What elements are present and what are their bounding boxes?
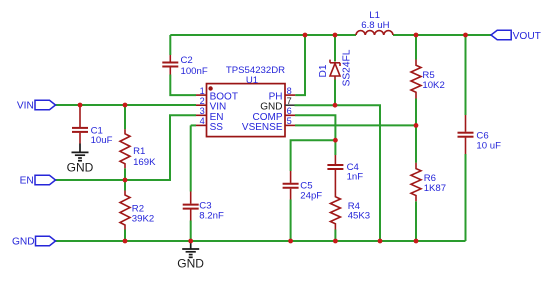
- junction node R5 top: [414, 33, 419, 38]
- svg-text:GND: GND: [12, 237, 35, 248]
- junction node D1 top: [333, 33, 338, 38]
- wire VIN rail: [56, 104, 197, 106]
- svg-text:VIN: VIN: [17, 101, 34, 112]
- svg-text:GND: GND: [177, 257, 204, 271]
- svg-text:SS: SS: [210, 122, 224, 133]
- wire COMP node to C5: [291, 140, 336, 171]
- svg-text:5: 5: [287, 116, 292, 126]
- resistor R5: [411, 60, 421, 99]
- junction node PH rail: [303, 33, 308, 38]
- junction node COMP/C4/C5: [333, 138, 338, 143]
- svg-text:U1: U1: [246, 75, 258, 86]
- svg-text:10K2: 10K2: [422, 80, 444, 91]
- wire C6 bottom: [465, 154, 467, 241]
- svg-text:10 uF: 10 uF: [476, 140, 501, 151]
- capacitor C2: [162, 55, 178, 75]
- wire COMP node to C4: [334, 140, 336, 155]
- wire R5 bottom / R6 top: [415, 99, 417, 163]
- capacitor C4: [327, 155, 343, 191]
- pin 7 GND: [285, 104, 295, 106]
- pin 1 BOOT: [196, 94, 207, 96]
- capacitor C3: [183, 192, 199, 221]
- svg-text:EN: EN: [20, 176, 34, 187]
- wire GND bottom rail: [56, 240, 466, 242]
- resistor R2: [120, 191, 130, 230]
- pin 6 COMP: [285, 114, 295, 116]
- resistor R1: [120, 129, 130, 168]
- capacitor C1: [72, 106, 88, 144]
- wire D1 bottom: [334, 80, 336, 106]
- svg-text:VSENSE: VSENSE: [242, 122, 283, 133]
- wire GND pin7 across and down: [295, 105, 381, 241]
- svg-text:D1: D1: [318, 64, 329, 77]
- inductor L1: [356, 31, 393, 35]
- wire D1 top: [334, 35, 336, 61]
- diode D1 SS24FL: [330, 60, 340, 80]
- wire top rail right (L1 to VOUT): [393, 34, 491, 36]
- svg-text:1nF: 1nF: [347, 172, 364, 183]
- wire top rail left (BOOT to L1): [170, 34, 356, 36]
- svg-text:SS24FL: SS24FL: [341, 49, 352, 86]
- port VIN: [35, 100, 56, 109]
- svg-text:1K87: 1K87: [424, 183, 446, 194]
- wire VSENSE pin5 to divider: [295, 124, 416, 126]
- wire SS down to C3: [190, 125, 192, 191]
- wire C3 bottom: [190, 221, 192, 242]
- wire R2 bottom: [124, 230, 126, 242]
- svg-text:8: 8: [287, 86, 292, 96]
- svg-text:3: 3: [200, 106, 205, 116]
- ground symbol under C3: [182, 241, 199, 257]
- svg-text:VOUT: VOUT: [513, 31, 541, 42]
- junction node EN/R1/R2: [123, 178, 128, 183]
- svg-text:100nF: 100nF: [181, 66, 208, 77]
- svg-text:6.8 uH: 6.8 uH: [361, 20, 389, 31]
- svg-text:2: 2: [200, 96, 205, 106]
- wire R5 top: [415, 35, 417, 60]
- port GND: [36, 236, 56, 245]
- junction node GND/R6: [414, 239, 419, 244]
- svg-text:R1: R1: [133, 146, 145, 157]
- wire C2 top branch: [169, 35, 171, 55]
- svg-text:8.2nF: 8.2nF: [199, 210, 224, 221]
- svg-text:169K: 169K: [133, 157, 156, 168]
- junction node GND/R4: [333, 239, 338, 244]
- wire C6 top: [465, 35, 467, 115]
- svg-text:39K2: 39K2: [132, 213, 154, 224]
- wire R6 bottom: [415, 201, 417, 241]
- junction node GND/C3: [188, 239, 193, 244]
- junction node GND/C5: [288, 239, 293, 244]
- wire C2 bottom to pin1: [170, 75, 196, 96]
- capacitor C5: [283, 171, 299, 200]
- pin 2 VIN: [196, 104, 207, 106]
- junction node D1 bottom: [333, 103, 338, 108]
- svg-text:24pF: 24pF: [300, 190, 322, 201]
- wire R1 top: [124, 105, 126, 129]
- port VOUT: [491, 30, 511, 39]
- svg-text:C2: C2: [181, 55, 193, 66]
- svg-text:10uF: 10uF: [91, 135, 113, 146]
- resistor R6: [411, 163, 421, 202]
- pin 4 SS: [196, 124, 207, 126]
- junction node GND/R2: [123, 239, 128, 244]
- svg-text:45K3: 45K3: [348, 211, 370, 222]
- capacitor C6: [458, 115, 474, 154]
- svg-text:6: 6: [287, 106, 292, 116]
- svg-text:4: 4: [200, 116, 205, 126]
- junction node VIN/C1: [78, 103, 83, 108]
- wire R4 bottom: [334, 230, 336, 242]
- junction node VSENSE/R5/R6: [414, 123, 419, 128]
- IC U1 TPS54232DR body: [207, 84, 286, 137]
- pin 5 VSENSE: [285, 124, 295, 126]
- pin 8 PH: [285, 94, 295, 96]
- wire C5 bottom: [290, 200, 292, 242]
- pin 3 EN: [196, 114, 207, 116]
- svg-text:GND: GND: [67, 160, 94, 174]
- junction node GND/pin7: [378, 239, 383, 244]
- svg-text:7: 7: [287, 96, 292, 106]
- junction node C6 top: [463, 33, 468, 38]
- wire PH pin8 up to rail: [295, 35, 305, 95]
- wire R2 top: [124, 180, 126, 191]
- wire R1 bottom: [124, 168, 126, 180]
- wire EN rail: [56, 115, 197, 180]
- wire COMP pin6: [295, 115, 335, 140]
- ground symbol under C1: [72, 144, 89, 161]
- wire SS pin4: [191, 124, 196, 126]
- junction node VIN/R1: [123, 103, 128, 108]
- resistor R4: [330, 191, 340, 230]
- port EN: [35, 175, 56, 184]
- pin-1 marker dot: [208, 86, 212, 90]
- svg-text:1: 1: [200, 86, 205, 96]
